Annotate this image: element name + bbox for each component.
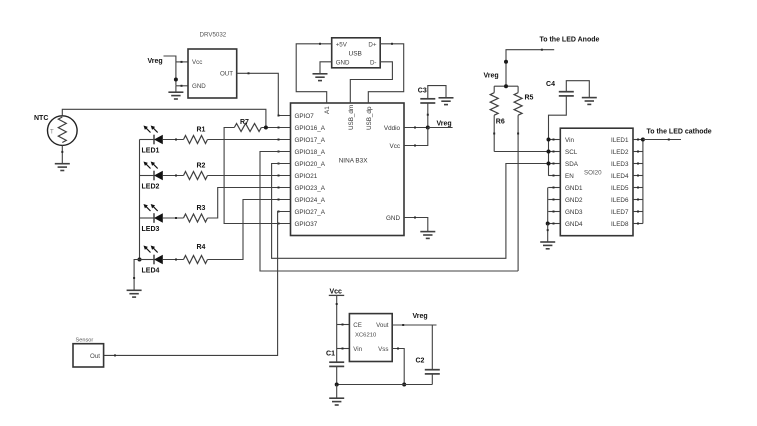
svg-text:LED4: LED4 xyxy=(142,268,160,275)
wire C2 top stem xyxy=(431,325,433,370)
svg-text:To the LED Anode: To the LED Anode xyxy=(540,37,600,44)
wire USB D+ to NINA USB_dp xyxy=(368,43,403,103)
wire Vcc to CE/Vin/C1 xyxy=(336,295,338,362)
capacitor C3 xyxy=(418,88,436,104)
resistor R7 xyxy=(234,124,261,132)
svg-text:ILED3: ILED3 xyxy=(611,161,629,168)
junction dot SCL xyxy=(547,150,551,154)
ground (SOI20) xyxy=(540,224,555,249)
svg-text:Out: Out xyxy=(90,353,100,360)
pin GPIO18_A of NINA xyxy=(278,149,326,156)
wire bus ILED1-ILED8 xyxy=(642,140,644,224)
pin ILED3 of SOI20 xyxy=(611,161,629,168)
wire R2 to GPIO21 xyxy=(208,175,291,177)
pin Vin of XC6210 xyxy=(353,346,362,353)
wire Vreg to DRV5032 Vcc and GND xyxy=(164,56,189,87)
svg-text:LED3: LED3 xyxy=(142,226,160,233)
svg-text:R3: R3 xyxy=(197,205,206,212)
svg-text:GPIO21: GPIO21 xyxy=(295,173,318,180)
svg-text:Sensor: Sensor xyxy=(76,338,94,344)
label R7 xyxy=(240,119,249,126)
wire bottom rail xyxy=(337,384,433,386)
pin SCL of SOI20 xyxy=(565,149,578,156)
power port Vcc xyxy=(329,289,344,296)
junction dot ILED1 xyxy=(641,138,645,142)
pin OUT of DRV5032 xyxy=(220,71,233,78)
label To the LED cathode xyxy=(647,129,712,136)
wire Vin stub xyxy=(337,348,350,350)
pin GND3 of SOI20 xyxy=(565,209,583,216)
pin D- of USB xyxy=(370,59,377,66)
wire R3 to GPIO23_A xyxy=(208,188,291,219)
wire R6 to SCL xyxy=(494,151,548,153)
svg-text:EN: EN xyxy=(565,173,574,180)
wire bus GND1-GND4 xyxy=(547,188,549,224)
pin D+ of USB xyxy=(368,41,376,48)
pin GND of USB xyxy=(336,59,350,66)
svg-text:Vcc: Vcc xyxy=(192,59,202,66)
svg-text:R2: R2 xyxy=(197,162,206,169)
svg-text:GPIO27_A: GPIO27_A xyxy=(295,209,326,216)
svg-text:ILED7: ILED7 xyxy=(611,209,629,216)
power net label Vreg (NINA) xyxy=(437,120,452,127)
label R6 xyxy=(496,119,505,126)
svg-text:GND: GND xyxy=(386,215,400,222)
ground (C3) xyxy=(439,98,454,105)
pin stub ILED8 xyxy=(633,223,643,225)
svg-text:To the LED cathode: To the LED cathode xyxy=(647,129,712,136)
power net label Vreg (XC6210) xyxy=(413,313,428,320)
pin stub Vin xyxy=(548,139,560,141)
pin USB_dp of NINA xyxy=(366,106,373,130)
wire LED cathode stub xyxy=(643,139,681,141)
pin +5V of USB xyxy=(336,41,348,48)
junction dot at LED4 cathode xyxy=(138,258,142,262)
pin stub ILED2 xyxy=(633,151,643,153)
junction dot Vddio/Vreg xyxy=(426,126,430,130)
pin stub ILED1 xyxy=(633,139,643,141)
svg-text:Vss: Vss xyxy=(378,346,388,353)
wire R7 left to GPIO37 xyxy=(224,128,290,224)
power net label Vreg (DRV5032 supply) xyxy=(148,58,163,65)
svg-text:R4: R4 xyxy=(197,244,206,251)
svg-text:Vreg: Vreg xyxy=(484,73,499,80)
wire NINA Vddio stub xyxy=(404,127,428,129)
resistor R6 xyxy=(490,86,498,151)
label R3 xyxy=(197,205,206,212)
pin EN of SOI20 xyxy=(565,173,574,180)
svg-text:GND1: GND1 xyxy=(565,185,583,192)
connector USB box xyxy=(332,38,381,68)
svg-text:Vin: Vin xyxy=(565,137,574,144)
svg-text:D+: D+ xyxy=(368,41,376,48)
pin GPIO20_A of NINA xyxy=(278,161,326,168)
pin GPIO24_A of NINA xyxy=(278,197,326,204)
label R1 xyxy=(197,126,206,133)
pin Vin of SOI20 xyxy=(565,137,574,144)
svg-text:SCL: SCL xyxy=(565,149,578,156)
svg-text:Vcc: Vcc xyxy=(390,143,401,150)
driver U3 SOI20 box xyxy=(560,128,633,236)
svg-text:GPIO24_A: GPIO24_A xyxy=(295,197,326,204)
pin Vout of XC6210 xyxy=(376,322,389,329)
label LED4 xyxy=(142,268,160,275)
svg-text:XC6210: XC6210 xyxy=(355,333,377,339)
pin stub ILED6 xyxy=(633,199,643,201)
pin A1 of NINA xyxy=(324,106,331,114)
wire C1 bottom to rail xyxy=(336,366,338,384)
svg-text:Vreg: Vreg xyxy=(437,120,452,127)
capacitor C1 xyxy=(326,351,344,367)
wire C3 bottom to Vddio node xyxy=(427,103,429,128)
pin GND1 of SOI20 xyxy=(565,185,583,192)
svg-text:T: T xyxy=(50,130,54,136)
junction dot SDA xyxy=(547,162,551,166)
ground (USB) xyxy=(313,74,328,81)
pin Vddio of NINA xyxy=(384,125,401,132)
svg-text:GPIO18_A: GPIO18_A xyxy=(295,149,326,156)
pin GND2 of SOI20 xyxy=(565,197,583,204)
label NTC xyxy=(34,115,48,122)
pin stub ILED4 xyxy=(633,175,643,177)
svg-text:Vreg: Vreg xyxy=(413,313,428,320)
svg-text:OUT: OUT xyxy=(220,71,233,78)
ground (C4) xyxy=(582,98,597,105)
pin ILED1 of SOI20 xyxy=(611,137,629,144)
pin ILED7 of SOI20 xyxy=(611,209,629,216)
wire Vout to Vreg/C2 xyxy=(392,324,436,326)
LED LED4 xyxy=(140,246,184,265)
svg-text:Vreg: Vreg xyxy=(148,58,163,65)
wire C4 top to ground xyxy=(566,81,589,98)
svg-text:R6: R6 xyxy=(496,119,505,126)
svg-text:ILED5: ILED5 xyxy=(611,185,629,192)
svg-text:LED1: LED1 xyxy=(142,148,160,155)
pin GPIO37 of NINA xyxy=(278,221,318,228)
svg-text:GPIO23_A: GPIO23_A xyxy=(295,185,326,192)
svg-text:ILED4: ILED4 xyxy=(611,173,629,180)
junction dot rail/ground xyxy=(335,383,339,387)
wire R1 to GPIO17_A xyxy=(208,139,291,141)
svg-text:A1: A1 xyxy=(324,106,331,114)
wire rail R6-R5 tops xyxy=(494,85,518,87)
svg-text:SDA: SDA xyxy=(565,161,579,168)
ground (LED column) xyxy=(127,260,142,298)
svg-text:GPIO20_A: GPIO20_A xyxy=(295,161,326,168)
pin Vss of XC6210 xyxy=(378,346,388,353)
pin stub GND3 xyxy=(548,211,560,213)
svg-text:Vout: Vout xyxy=(376,322,389,329)
pin stub ILED7 xyxy=(633,211,643,213)
svg-text:GPIO37: GPIO37 xyxy=(295,221,318,228)
capacitor C4 xyxy=(546,81,574,96)
label R2 xyxy=(197,162,206,169)
svg-text:GND3: GND3 xyxy=(565,209,583,216)
svg-text:ILED6: ILED6 xyxy=(611,197,629,204)
wire USB +5V to NINA A1 xyxy=(296,43,332,103)
wire C2 bottom to rail xyxy=(431,374,433,385)
regulator U4 XC6210 box xyxy=(349,314,392,362)
pin stub EN xyxy=(548,175,560,177)
label R5 xyxy=(525,95,534,102)
svg-text:Vddio: Vddio xyxy=(384,125,401,132)
svg-text:+5V: +5V xyxy=(336,41,348,48)
ground (XC6210) xyxy=(329,385,344,406)
pin stub ILED3 xyxy=(633,163,643,165)
svg-text:NINA B3X: NINA B3X xyxy=(339,158,369,165)
svg-text:D-: D- xyxy=(370,59,377,66)
pin stub SDA xyxy=(548,163,560,165)
pin Vcc of DRV5032 xyxy=(192,59,202,66)
svg-text:R7: R7 xyxy=(240,119,249,126)
wire CE stub xyxy=(337,324,350,326)
wire R7 right to GPIO16_A xyxy=(261,127,290,129)
svg-text:Vcc: Vcc xyxy=(330,289,343,296)
junction dot R7/NTC node xyxy=(264,126,268,130)
wire Vddio node to Vcc pin xyxy=(404,128,428,147)
pin Out of sensor xyxy=(90,353,100,360)
junction dot on DRV5032 ground branch xyxy=(174,78,178,82)
svg-text:Vin: Vin xyxy=(353,346,362,353)
resistor R3 xyxy=(184,214,208,222)
svg-text:DRV5032: DRV5032 xyxy=(200,32,227,39)
svg-text:USB_dp: USB_dp xyxy=(366,106,373,130)
junction dot anode/Vreg port xyxy=(504,60,508,64)
pin GPIO17_A of NINA xyxy=(278,137,326,144)
junction dot GND4 xyxy=(546,222,550,226)
wire Vss to rail xyxy=(392,348,404,385)
pin Vcc of NINA xyxy=(390,143,401,150)
LED LED3 xyxy=(140,204,184,223)
label LED1 xyxy=(142,148,160,155)
pin GPIO7 of NINA xyxy=(278,113,315,120)
wire Vreg stub at Vddio xyxy=(428,127,453,129)
pin GPIO21 of NINA xyxy=(278,173,318,180)
pin GND of DRV5032 xyxy=(192,83,206,90)
pin stub GND4 xyxy=(548,223,560,225)
pin stub SCL xyxy=(548,151,560,153)
pin ILED4 of SOI20 xyxy=(611,173,629,180)
pin stub GND1 xyxy=(548,187,560,189)
svg-text:GPIO16_A: GPIO16_A xyxy=(295,125,326,132)
pin SDA of SOI20 xyxy=(565,161,579,168)
junction dot Vss/rail xyxy=(402,383,406,387)
svg-text:C4: C4 xyxy=(546,81,555,88)
ground (NINA) xyxy=(420,232,435,239)
wire USB GND to ground xyxy=(320,62,332,74)
capacitor C2 xyxy=(416,358,440,374)
svg-text:USB: USB xyxy=(349,50,362,57)
svg-text:GND: GND xyxy=(336,59,350,66)
label LED2 xyxy=(142,184,160,191)
label LED3 xyxy=(142,226,160,233)
pin GND of NINA xyxy=(386,215,400,222)
pin stub GND2 xyxy=(548,199,560,201)
svg-text:GPIO7: GPIO7 xyxy=(295,113,315,120)
svg-text:CE: CE xyxy=(353,322,362,329)
wire DRV5032 OUT to NINA GPIO7 xyxy=(237,72,291,115)
wire NINA GND to ground xyxy=(404,217,428,232)
pin GPIO27_A of NINA xyxy=(278,209,326,216)
pin CE of XC6210 xyxy=(353,322,362,329)
svg-text:LED2: LED2 xyxy=(142,184,160,191)
sensor box xyxy=(73,338,104,368)
wire LED cathode column xyxy=(139,140,141,260)
svg-text:C1: C1 xyxy=(326,351,335,358)
label To the LED Anode xyxy=(540,37,600,44)
module U1 NINA B3X box xyxy=(291,103,405,236)
label R4 xyxy=(197,244,206,251)
svg-text:GND: GND xyxy=(192,83,206,90)
svg-text:GPIO17_A: GPIO17_A xyxy=(295,137,326,144)
svg-text:ILED1: ILED1 xyxy=(611,137,629,144)
wire USB D- to NINA USB_dm xyxy=(350,62,392,103)
power net label Vreg (anode rail) xyxy=(484,73,499,80)
wire R4 to GPIO24_A xyxy=(208,200,291,260)
svg-text:R5: R5 xyxy=(525,95,534,102)
svg-text:SOI20: SOI20 xyxy=(584,170,602,177)
pin USB_dm of NINA xyxy=(348,105,355,130)
ground (NTC) xyxy=(55,145,70,170)
wire LED anode stub xyxy=(506,49,554,86)
ground (DRV5032) xyxy=(168,86,183,99)
svg-text:GND4: GND4 xyxy=(565,221,583,228)
svg-text:NTC: NTC xyxy=(34,115,48,122)
pin ILED6 of SOI20 xyxy=(611,197,629,204)
LED LED1 xyxy=(140,126,184,145)
wire GPIO18_A to R5 bottom (SCL route) xyxy=(260,152,518,272)
junction dot Vin xyxy=(547,138,551,142)
resistor R1 xyxy=(184,136,208,144)
pin GPIO23_A of NINA xyxy=(278,185,326,192)
junction dot rail xyxy=(504,84,508,88)
thermistor NTC xyxy=(48,116,78,146)
resistor R5 xyxy=(514,86,522,271)
wire bus Vin-EN xyxy=(548,140,550,176)
pin ILED8 of SOI20 xyxy=(611,221,629,228)
svg-text:R1: R1 xyxy=(197,126,206,133)
wire sensor Out to GPIO27_A xyxy=(104,212,291,357)
svg-text:C3: C3 xyxy=(418,88,427,95)
wire C3 top to ground xyxy=(428,86,446,99)
resistor R2 xyxy=(184,172,208,180)
pin GND4 of SOI20 xyxy=(565,221,583,228)
svg-text:GND2: GND2 xyxy=(565,197,583,204)
hall sensor U2 DRV5032 box xyxy=(188,32,237,99)
wire GPIO20_A to SDA xyxy=(272,164,549,259)
wire NTC top to R7 node xyxy=(62,109,266,127)
svg-text:ILED8: ILED8 xyxy=(611,221,629,228)
svg-text:C2: C2 xyxy=(416,358,425,365)
wire C4 bottom to Vin xyxy=(549,96,567,140)
LED LED2 xyxy=(140,162,184,181)
svg-text:ILED2: ILED2 xyxy=(611,149,629,156)
pin ILED2 of SOI20 xyxy=(611,149,629,156)
resistor R4 xyxy=(184,256,208,264)
svg-text:USB_dm: USB_dm xyxy=(348,105,355,130)
pin GPIO16_A of NINA xyxy=(278,125,326,132)
pin stub ILED5 xyxy=(633,187,643,189)
pin ILED5 of SOI20 xyxy=(611,185,629,192)
